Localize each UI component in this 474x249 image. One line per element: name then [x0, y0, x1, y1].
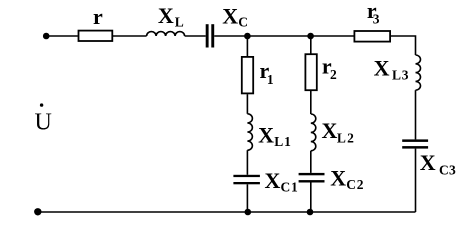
svg-text:U: U — [35, 110, 52, 136]
wire: resistor r to inductor XL — [113, 35, 147, 37]
label XC2 — [330, 165, 364, 192]
svg-text:C: C — [238, 15, 248, 30]
svg-text:X: X — [322, 118, 338, 143]
wire top: terminal to resistor r — [46, 35, 78, 37]
wire: capacitor XC1 to node N3 — [246, 184, 248, 212]
svg-text:X: X — [222, 3, 238, 28]
label XL2 — [322, 118, 356, 146]
svg-text:r: r — [93, 4, 103, 29]
capacitor XC — [206, 24, 215, 47]
svg-text:1: 1 — [267, 72, 274, 87]
inductor XL — [147, 32, 185, 36]
svg-text:C3: C3 — [439, 163, 456, 178]
capacitor XC2 — [299, 173, 325, 183]
label XL1 — [258, 123, 292, 150]
svg-text:X: X — [258, 123, 274, 148]
label U source voltage — [35, 103, 52, 135]
svg-text:L: L — [175, 15, 184, 30]
node N4 — [307, 209, 314, 216]
wire: inductor XL1 to capacitor XC1 — [246, 150, 248, 175]
terminal bottom-left — [34, 208, 41, 215]
svg-text:3: 3 — [373, 11, 380, 26]
wire: inductor XL2 to capacitor XC2 — [310, 151, 312, 173]
node N2 — [307, 33, 314, 40]
label r — [93, 4, 103, 29]
label XC1 — [265, 168, 299, 195]
wire: inductor XL to capacitor XC — [185, 35, 206, 37]
svg-text:L2: L2 — [337, 131, 355, 146]
wire: capacitor XC2 to node N4 — [310, 183, 312, 213]
svg-text:L3: L3 — [392, 68, 409, 83]
resistor r — [79, 31, 113, 41]
resistor r3 — [354, 31, 390, 42]
terminal top-left — [43, 33, 50, 40]
capacitor XC3 — [402, 139, 428, 148]
inductor XL3 — [416, 55, 421, 90]
inductor XL2 — [311, 114, 316, 151]
node N3 — [245, 209, 252, 216]
wire: capacitor XC3 to bottom-right corner — [415, 149, 417, 212]
svg-text:X: X — [265, 168, 281, 193]
wire: node N2 to resistor r2 — [310, 36, 312, 54]
wire: resistor r3 to top-right corner — [391, 36, 416, 55]
label r1 — [260, 58, 274, 87]
wire: resistor r2 to inductor XL2 — [310, 91, 312, 114]
wire: inductor XL3 to capacitor XC3 — [415, 90, 417, 139]
resistor r2 — [305, 54, 316, 90]
svg-text:X: X — [374, 56, 390, 81]
label XC — [222, 3, 248, 29]
svg-text:C2: C2 — [346, 177, 364, 192]
node N1 — [244, 33, 251, 40]
svg-text:X: X — [420, 150, 436, 175]
svg-text:X: X — [158, 3, 174, 28]
inductor XL1 — [247, 114, 252, 150]
wire: node N1 to resistor r1 — [246, 36, 248, 57]
svg-text:2: 2 — [330, 67, 337, 82]
label XL — [158, 3, 184, 30]
resistor r1 — [242, 57, 253, 94]
svg-text:L1: L1 — [274, 134, 291, 149]
wire bottom — [38, 211, 416, 213]
wire top: capacitor XC to node N1 to node N2 to resistor r3 — [214, 35, 354, 37]
label XC3 — [420, 150, 456, 178]
label XL3 — [374, 56, 410, 83]
label r3 — [367, 0, 380, 26]
svg-text:C1: C1 — [281, 180, 299, 195]
wire: resistor r1 to inductor XL1 — [246, 94, 248, 114]
svg-text:X: X — [330, 165, 346, 190]
capacitor XC1 — [233, 175, 260, 185]
label r2 — [322, 54, 337, 82]
